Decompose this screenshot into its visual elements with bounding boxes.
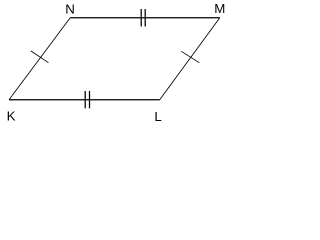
single tick mark on side KN <box>31 51 49 63</box>
svg-text:L: L <box>154 109 161 124</box>
wire side NM (top edge of parallelogram) <box>70 17 220 19</box>
svg-text:K: K <box>7 109 16 124</box>
svg-text:M: M <box>214 1 225 16</box>
wire side KN (left edge of parallelogram) <box>9 18 70 100</box>
svg-text:N: N <box>65 2 75 17</box>
double tick mark on side KL <box>85 91 89 108</box>
wire side LM (right edge of parallelogram) <box>160 18 220 100</box>
wire side KL (bottom edge of parallelogram) <box>9 99 160 101</box>
double tick mark on side NM <box>141 9 145 27</box>
single tick mark on side LM <box>181 51 199 62</box>
